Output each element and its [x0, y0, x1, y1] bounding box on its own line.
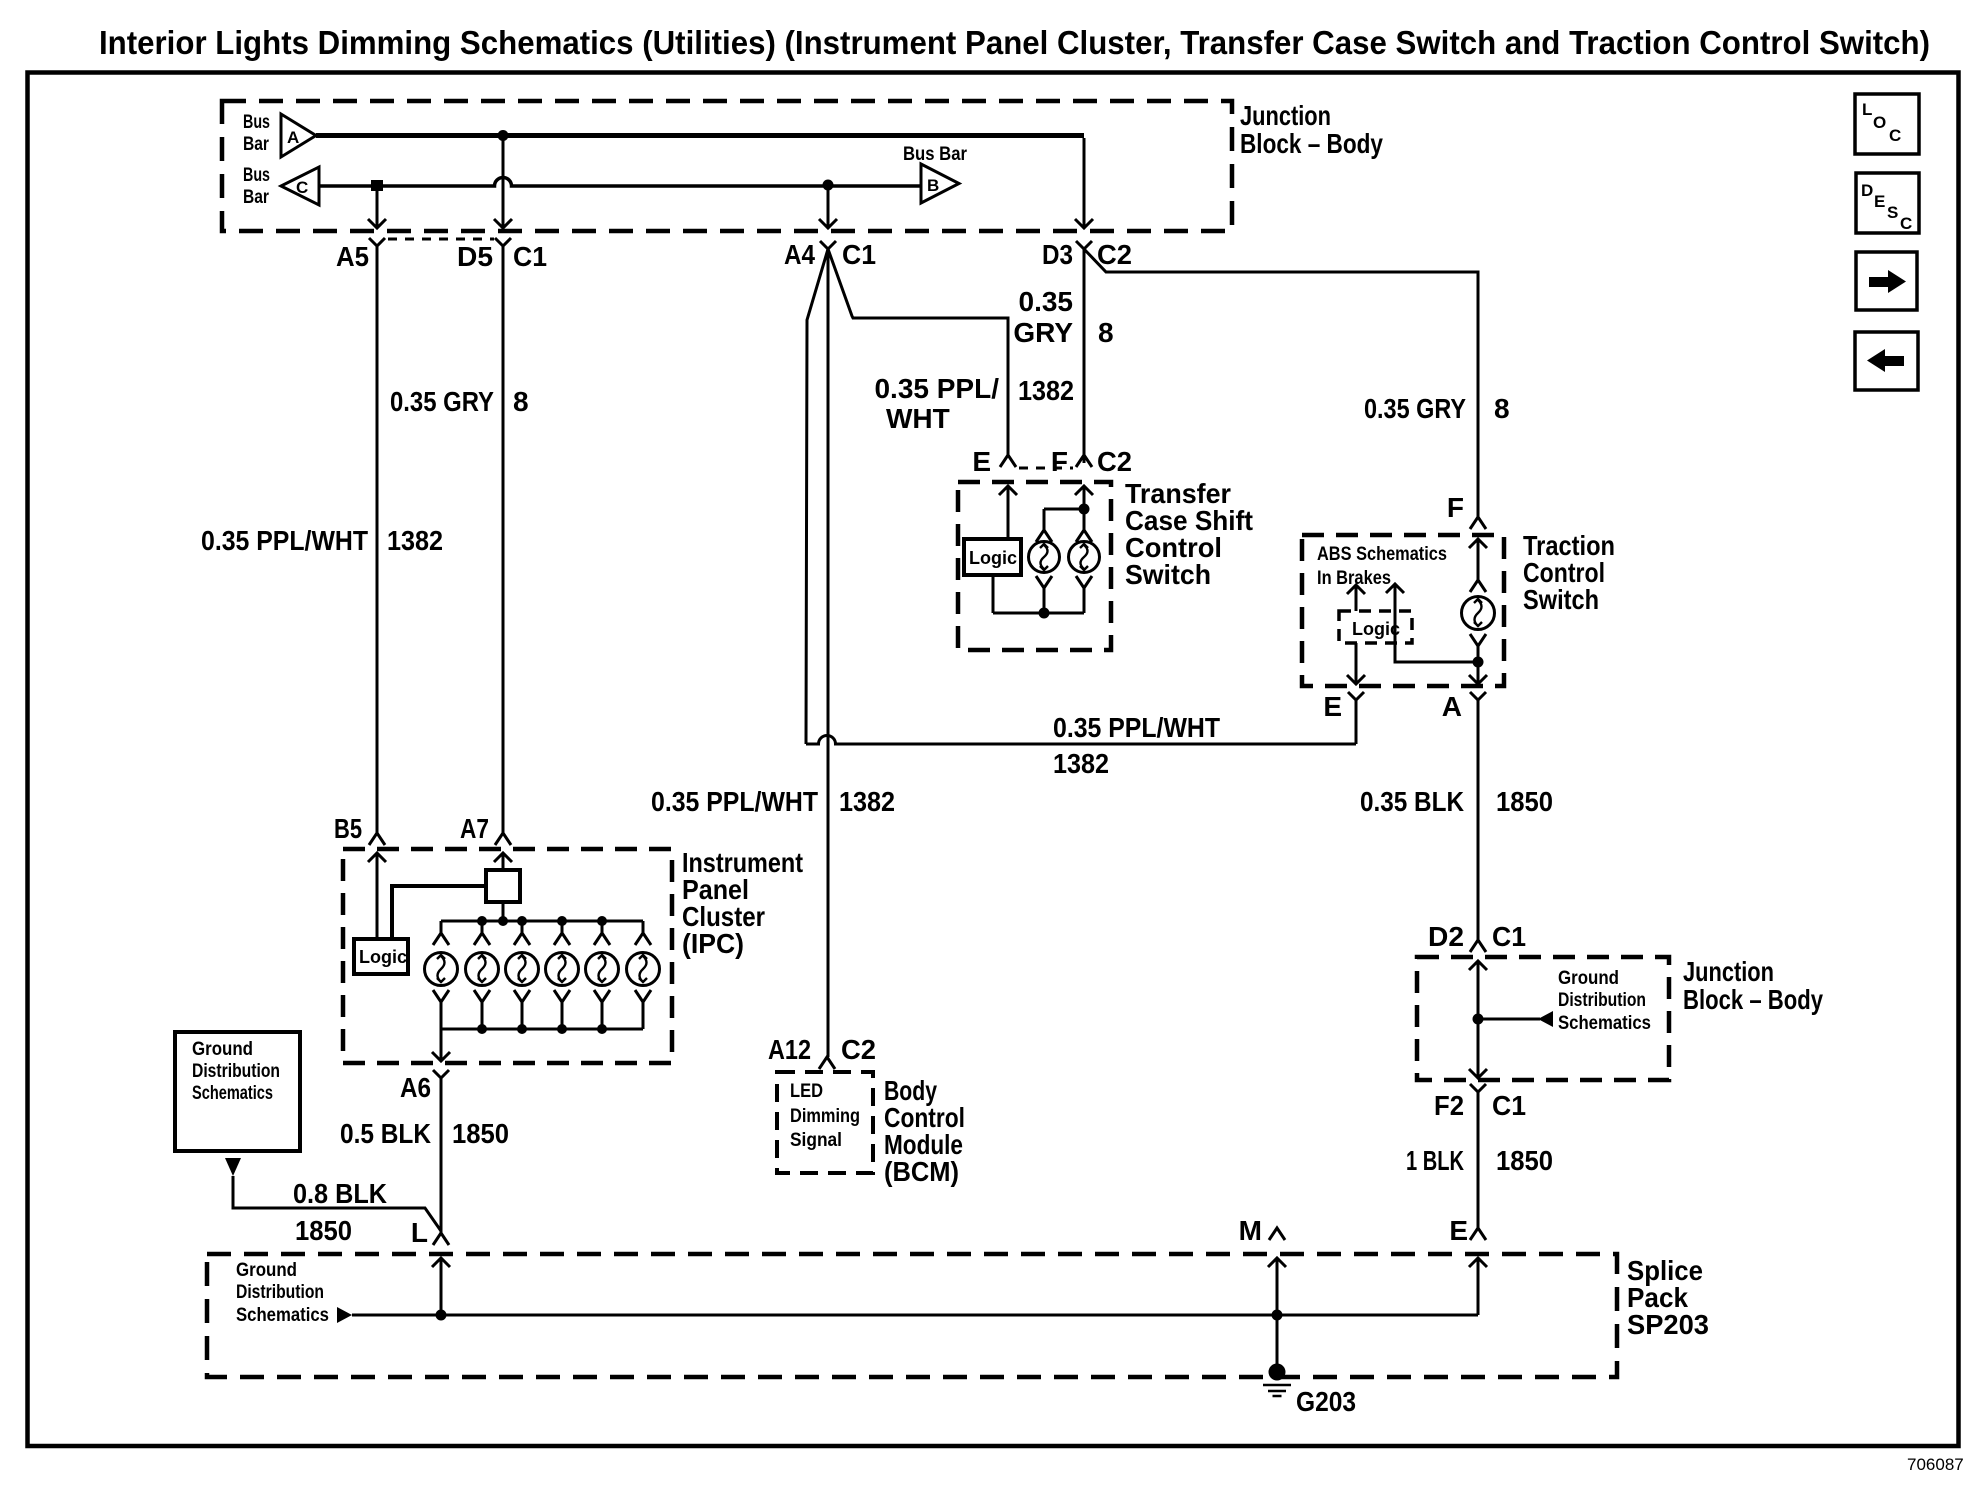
nav box arrow left	[1855, 332, 1918, 390]
wire drop D5 inside box with hop over bus C	[502, 138, 505, 228]
connector A5 half	[369, 238, 385, 246]
arrow up into splice pin L	[432, 1258, 450, 1315]
wire lamp feed from F pin in transfer case	[1044, 508, 1084, 511]
svg-text:1850: 1850	[452, 1118, 509, 1149]
svg-text:Block – Body: Block – Body	[1240, 128, 1383, 159]
body control module label	[884, 1075, 965, 1187]
connector A12 half above BCM	[819, 1057, 835, 1069]
svg-text:0.35 PPL/WHT: 0.35 PPL/WHT	[1053, 712, 1220, 743]
wire logic bottom to lamp bus in transfer case	[992, 575, 995, 613]
svg-text:Ground: Ground	[236, 1260, 297, 1281]
transfer lamp 1	[1029, 542, 1060, 573]
logic box in transfer case	[964, 539, 1021, 575]
wire D5 to A7	[502, 246, 505, 833]
wire traction logic down to pin E with exit arrow	[1347, 643, 1365, 684]
svg-text:1382: 1382	[1053, 748, 1109, 779]
node dot splice bus at M	[1272, 1310, 1283, 1321]
wire IPC lamp return bus	[441, 1028, 643, 1031]
connector A6 half below IPC	[433, 1070, 449, 1078]
LED dimming signal dashed box	[777, 1072, 873, 1173]
svg-text:0.5 BLK: 0.5 BLK	[340, 1118, 431, 1149]
arrow up right of traction logic to ABS reference	[1386, 584, 1404, 593]
svg-text:C: C	[1900, 214, 1912, 233]
solid triangle ground distribution reference (right junction block)	[1538, 1011, 1553, 1027]
svg-text:C2: C2	[1097, 239, 1132, 270]
arrow up into IPC pin B5	[368, 853, 386, 939]
svg-text:Switch: Switch	[1125, 559, 1211, 590]
wire lamp return bus in transfer case	[993, 612, 1084, 615]
bus bar B triangle	[921, 164, 959, 203]
node dot at traction lamp return	[1473, 657, 1484, 668]
traction lamp bottom connector	[1470, 634, 1486, 662]
connector D2 half above right junction block	[1470, 940, 1486, 952]
svg-text:LED: LED	[790, 1081, 823, 1102]
ground distribution schematics solid box (left)	[175, 1032, 300, 1151]
svg-text:E: E	[1449, 1215, 1468, 1246]
svg-text:8: 8	[1494, 393, 1510, 424]
connector A4-C1 half	[820, 241, 836, 249]
arrow up into traction box pin F	[1469, 539, 1487, 580]
ABS schematics in brakes label	[1317, 544, 1447, 589]
svg-text:0.8 BLK: 0.8 BLK	[293, 1178, 387, 1209]
svg-text:Schematics: Schematics	[192, 1083, 273, 1104]
svg-text:Switch: Switch	[1523, 584, 1599, 615]
junction block body (top) label	[1240, 100, 1383, 159]
svg-text:(BCM): (BCM)	[884, 1156, 959, 1187]
svg-text:Logic: Logic	[969, 548, 1017, 568]
splice pack SP203 dashed box	[207, 1254, 1617, 1377]
wire splice pack bus	[352, 1314, 1478, 1317]
svg-text:SP203: SP203	[1627, 1309, 1709, 1340]
svg-text:B5: B5	[334, 813, 362, 844]
IPC lamp 1	[425, 921, 458, 1029]
svg-text:C: C	[296, 178, 308, 197]
node dot on transfer return bus	[1039, 608, 1050, 619]
nav box arrow right	[1856, 252, 1917, 310]
svg-text:Junction: Junction	[1683, 956, 1774, 987]
connector L half above splice pack	[433, 1233, 449, 1245]
arrow up from traction logic to ABS reference	[1347, 585, 1365, 611]
connector B5 half above IPC	[369, 833, 385, 845]
svg-text:B: B	[927, 176, 939, 195]
svg-text:1850: 1850	[1496, 786, 1553, 817]
svg-text:A4: A4	[784, 239, 815, 270]
arrow down at D3 box exit	[1075, 219, 1093, 228]
svg-text:C1: C1	[842, 239, 876, 270]
IPC lamp 4	[546, 921, 579, 1029]
arrow down at A5 box exit	[368, 219, 386, 228]
connector D3-C2 half	[1076, 241, 1092, 249]
svg-text:0.35 BLK: 0.35 BLK	[1360, 786, 1464, 817]
svg-text:8: 8	[1098, 317, 1114, 348]
instrument panel cluster label	[682, 847, 803, 959]
nav box DESC	[1856, 173, 1919, 233]
svg-text:WHT: WHT	[886, 403, 950, 434]
svg-text:E: E	[1874, 192, 1885, 211]
svg-text:Junction: Junction	[1240, 100, 1331, 131]
node dots on IPC return bus	[477, 1024, 607, 1034]
svg-text:L: L	[1862, 100, 1872, 119]
svg-text:E: E	[972, 446, 991, 477]
wire IPC square down to lamp bus	[502, 902, 505, 921]
arrow up into splice pin M	[1268, 1258, 1286, 1315]
junction block body (top) dashed box	[222, 101, 1232, 231]
logic box in IPC	[354, 939, 408, 974]
wire traction E down and left to PPL/WHT run	[1355, 700, 1358, 744]
ground distribution schematics label (right junction block)	[1558, 968, 1651, 1034]
svg-text:8: 8	[513, 386, 529, 417]
connector E half below traction box	[1348, 692, 1364, 700]
connector E half above splice pack	[1470, 1228, 1486, 1240]
svg-text:E: E	[1323, 691, 1342, 722]
wire IPC square to logic	[392, 886, 486, 939]
wire drop D3 inside box with hop over bus C	[1083, 138, 1086, 228]
svg-text:Bar: Bar	[243, 134, 269, 155]
svg-text:A5: A5	[336, 241, 369, 272]
connector F half above transfer case box	[1076, 455, 1092, 467]
bus bar A triangle	[281, 114, 316, 157]
arrow up into splice pin E	[1469, 1258, 1487, 1315]
wire M down to ground G203	[1276, 1315, 1279, 1366]
node dot splice bus at L	[436, 1310, 447, 1321]
IPC lamp 6	[627, 921, 660, 1029]
junction block body (right) dashed box	[1417, 957, 1669, 1080]
svg-text:1382: 1382	[839, 786, 895, 817]
IPC lamp 3	[506, 921, 539, 1029]
wire drop A5 inside box	[376, 189, 379, 228]
junction block body (right) label	[1683, 956, 1823, 1015]
svg-text:0.35 GRY: 0.35 GRY	[1364, 393, 1466, 424]
arrow up into IPC pin A7	[494, 853, 512, 870]
traction logic dashed box	[1339, 611, 1412, 643]
svg-text:O: O	[1873, 113, 1886, 132]
svg-text:G203: G203	[1296, 1386, 1356, 1417]
nav box LOC	[1855, 94, 1919, 154]
svg-text:GRY: GRY	[1013, 317, 1073, 348]
connector dashed link A5 to D5	[388, 238, 494, 241]
svg-text:C1: C1	[513, 241, 547, 272]
wire A4 center branch down to BCM A12	[827, 249, 830, 1057]
wire drop A4 inside box	[827, 190, 830, 228]
transfer lamp 2	[1069, 542, 1100, 573]
ground G203 symbol	[1263, 1364, 1291, 1397]
svg-text:D2: D2	[1428, 921, 1464, 952]
bus bar C label	[243, 165, 270, 208]
svg-text:0.35: 0.35	[1019, 286, 1074, 317]
svg-text:1382: 1382	[1018, 375, 1074, 406]
node dot on bus A at x503	[498, 130, 509, 141]
svg-text:ABS Schematics: ABS Schematics	[1317, 544, 1447, 565]
svg-text:Signal: Signal	[790, 1130, 842, 1151]
wire bus A	[316, 133, 1084, 138]
traction control switch dashed box	[1302, 535, 1504, 686]
svg-text:A: A	[287, 128, 299, 147]
transfer lamp 1 top connector	[1036, 509, 1052, 542]
wire D3 right branch to traction F	[1084, 249, 1478, 517]
traction lamp	[1462, 597, 1495, 630]
bus bar A label	[243, 112, 270, 155]
svg-text:Logic: Logic	[1352, 619, 1400, 639]
svg-text:A7: A7	[460, 813, 489, 844]
svg-text:Ground: Ground	[1558, 968, 1619, 989]
svg-text:Dimming: Dimming	[790, 1106, 860, 1127]
IPC dimmer element square	[486, 870, 520, 902]
svg-text:1382: 1382	[387, 525, 443, 556]
wire IPC lamp top bus	[441, 920, 643, 923]
wire horizontal PPL/WHT run to traction E with hop over BCM wire	[806, 736, 1356, 745]
connector F2 half below right junction block	[1470, 1084, 1486, 1092]
connector D5-C1 half	[495, 238, 511, 246]
arrow up into transfer box pin F	[1075, 486, 1093, 509]
svg-text:Bar: Bar	[243, 187, 269, 208]
node square dot on bus C at x377	[371, 180, 383, 191]
arrow up into transfer box pin E	[999, 486, 1017, 539]
wire from right ABS arrow down to lamp return	[1395, 584, 1478, 662]
node dot on bus C at x828	[823, 180, 834, 191]
svg-text:Schematics: Schematics	[1558, 1013, 1651, 1034]
svg-text:Bus Bar: Bus Bar	[903, 144, 968, 165]
svg-text:C1: C1	[1492, 1090, 1526, 1121]
svg-text:D: D	[1861, 181, 1873, 200]
transfer case shift control switch dashed box	[958, 482, 1111, 650]
splice pack label	[1627, 1255, 1709, 1340]
svg-text:Logic: Logic	[359, 947, 407, 967]
bus bar C triangle	[281, 167, 319, 205]
svg-text:1850: 1850	[1496, 1145, 1553, 1176]
svg-text:706087: 706087	[1907, 1455, 1964, 1474]
arrow up into right junction block pin D2	[1469, 961, 1487, 1019]
svg-text:(IPC): (IPC)	[682, 928, 744, 959]
svg-text:C1: C1	[1492, 921, 1526, 952]
arrow down at D5 box exit	[494, 219, 512, 228]
svg-text:D5: D5	[457, 241, 493, 272]
svg-text:A6: A6	[400, 1072, 431, 1103]
svg-text:0.35 PPL/WHT: 0.35 PPL/WHT	[651, 786, 818, 817]
wire A4 right branch to transfer case E	[828, 249, 1008, 455]
svg-text:Distribution: Distribution	[1558, 990, 1646, 1011]
wire down to pin F2 with exit arrow	[1469, 1019, 1487, 1078]
node dot in right junction block	[1473, 1014, 1484, 1025]
svg-text:C2: C2	[841, 1034, 876, 1065]
svg-text:0.35 GRY: 0.35 GRY	[390, 386, 494, 417]
traction lamp top connector	[1470, 580, 1486, 592]
node dot at transfer lamp feed	[1079, 504, 1090, 515]
svg-text:0.35 PPL/: 0.35 PPL/	[874, 373, 999, 404]
connector A half below traction box	[1470, 692, 1486, 700]
svg-text:Distribution: Distribution	[192, 1061, 280, 1082]
svg-text:F: F	[1051, 446, 1068, 477]
ground distribution schematics label (left box)	[192, 1039, 280, 1104]
svg-text:Bus: Bus	[243, 165, 270, 186]
node dots on IPC top bus	[477, 916, 607, 926]
svg-text:C: C	[1889, 126, 1901, 145]
wire 0.8 BLK from ground reference to splice L	[233, 1176, 441, 1231]
IPC lamp 2	[466, 921, 499, 1029]
wire traction A down to D2	[1477, 700, 1480, 940]
wire A6 down to splice L	[440, 1078, 443, 1233]
connector M half above splice pack	[1269, 1228, 1285, 1240]
svg-text:Block – Body: Block – Body	[1683, 984, 1823, 1015]
svg-text:0.35 PPL/WHT: 0.35 PPL/WHT	[201, 525, 368, 556]
arrow down at A4 box exit	[819, 219, 837, 228]
solid triangle ground distribution reference in splice pack	[337, 1307, 352, 1323]
svg-text:Bus: Bus	[243, 112, 270, 133]
svg-text:F2: F2	[1434, 1090, 1464, 1121]
wire F2 to splice E	[1477, 1092, 1480, 1228]
svg-text:M: M	[1239, 1215, 1262, 1246]
wire bus C	[319, 178, 921, 187]
wire A4 left branch down to horizontal PPL/WHT run	[806, 249, 828, 744]
svg-text:Schematics: Schematics	[236, 1305, 329, 1326]
solid triangle below ground box	[225, 1158, 241, 1176]
svg-text:Interior Lights Dimming Schema: Interior Lights Dimming Schematics (Util…	[99, 24, 1930, 61]
instrument panel cluster dashed box	[343, 849, 672, 1063]
transfer lamp 1 bottom connector	[1036, 576, 1052, 613]
svg-text:1850: 1850	[295, 1215, 352, 1246]
wire D3 straight branch to transfer case F	[1083, 249, 1086, 463]
connector A7 half above IPC	[495, 833, 511, 845]
svg-text:Ground: Ground	[192, 1039, 253, 1060]
svg-text:S: S	[1887, 203, 1898, 222]
svg-text:F: F	[1447, 492, 1464, 523]
transfer lamp 2 top connector	[1076, 509, 1092, 542]
svg-text:D3: D3	[1042, 239, 1073, 270]
wire A5 to B5	[376, 246, 379, 833]
wire to ground distribution reference in right junction block	[1478, 1018, 1540, 1021]
svg-text:A12: A12	[768, 1034, 811, 1065]
IPC lamp 5	[586, 921, 619, 1029]
traction control switch label	[1523, 530, 1615, 615]
svg-text:Distribution: Distribution	[236, 1282, 324, 1303]
wire IPC return down to pin A6 with exit arrow	[432, 1029, 450, 1061]
connector E half above transfer case box	[1000, 455, 1016, 467]
LED dimming signal label	[790, 1081, 860, 1151]
transfer case shift control switch label	[1125, 478, 1253, 590]
connector dashed link E to F at transfer case	[1019, 467, 1073, 470]
svg-text:L: L	[411, 1217, 428, 1248]
svg-text:A: A	[1442, 691, 1462, 722]
connector F half above traction box	[1470, 517, 1486, 529]
svg-text:C2: C2	[1097, 446, 1132, 477]
wire traction lamp return down to pin A with exit arrow	[1469, 662, 1487, 684]
ground distribution schematics label (splice pack)	[236, 1260, 329, 1326]
transfer lamp 2 bottom connector	[1076, 576, 1092, 613]
svg-text:1 BLK: 1 BLK	[1406, 1145, 1464, 1176]
